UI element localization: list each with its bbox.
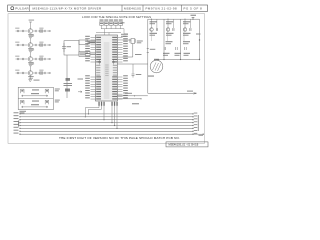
svg-text:MSE4610S: MSE4610S bbox=[124, 6, 141, 10]
svg-text:LOOK FOR THE SPECIAL NOTE FOR: LOOK FOR THE SPECIAL NOTE FOR SETTINGS bbox=[82, 15, 151, 19]
svg-text:PULSAR: PULSAR bbox=[15, 6, 29, 10]
svg-text:MSE4610S_01 - 01 SH 1B: MSE4610S_01 - 01 SH 1B bbox=[169, 144, 199, 147]
svg-text:MSE4610-111X/6P-X-7X MOTOR DRI: MSE4610-111X/6P-X-7X MOTOR DRIVER bbox=[33, 6, 102, 10]
svg-text:PG 5 OF 8: PG 5 OF 8 bbox=[184, 6, 203, 10]
svg-text:PM97UN 21-02-98: PM97UN 21-02-98 bbox=[146, 6, 178, 10]
svg-text:THE FIRST DIGIT OF VERSION NO: THE FIRST DIGIT OF VERSION NO OF THIS PA… bbox=[59, 136, 180, 140]
